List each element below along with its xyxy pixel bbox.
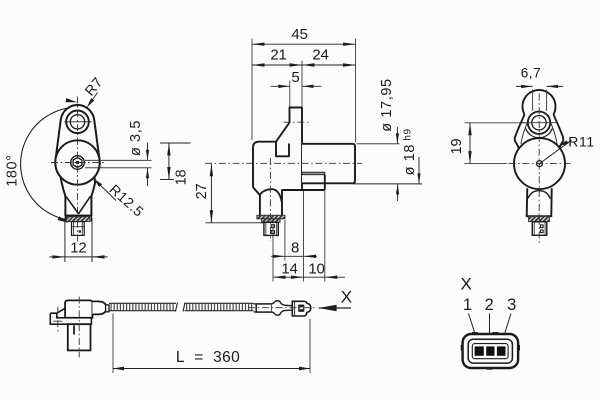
R12.5 leader — [93, 178, 147, 220]
cable sensor vertical centerline — [78, 297, 80, 358]
svg-text:18: 18 — [173, 170, 189, 186]
corrugated cable run 1 — [109, 303, 176, 310]
rear view vertical centerline — [538, 94, 540, 244]
rear view body outline — [515, 90, 563, 149]
connector pin cavity frame — [472, 344, 508, 359]
connector outer shell — [463, 334, 518, 368]
svg-text:27: 27 — [194, 184, 210, 200]
cable sensor grommet — [106, 305, 109, 312]
svg-text:ø 18: ø 18 — [402, 144, 418, 175]
rear view center hole dot — [537, 161, 543, 167]
svg-text:L = 360: L = 360 — [176, 349, 240, 366]
connector inner wall — [468, 339, 512, 363]
front view top hole crosshair — [64, 121, 91, 123]
dimension 12 (front) — [50, 218, 108, 262]
svg-text:14: 14 — [281, 260, 297, 277]
side view head body — [253, 108, 302, 203]
cable sensor barrel — [68, 324, 91, 350]
corrugated cable run 2 — [185, 303, 254, 310]
pin 1 — [475, 346, 484, 355]
rear view top hole horizontal crosshair — [521, 122, 557, 124]
front view V notch — [66, 196, 79, 214]
front view 180deg swing arc — [21, 98, 78, 223]
svg-text:6,7: 6,7 — [521, 65, 542, 80]
svg-text:ø 17,95: ø 17,95 — [379, 78, 395, 131]
front view body outline — [55, 105, 99, 216]
dimension dia 3,5 — [85, 120, 152, 186]
cable end connector body — [292, 301, 311, 316]
dimension dia 18 h9 — [353, 128, 422, 201]
svg-text:12: 12 — [70, 239, 86, 256]
dimension 19 — [449, 123, 528, 164]
cable connector latch detail — [299, 305, 304, 311]
dimension 5 — [271, 69, 322, 106]
rear view 2-pin connector — [532, 222, 547, 236]
svg-text:5: 5 — [291, 69, 300, 86]
dimension 45 — [252, 26, 356, 142]
cable sensor bracket plate — [50, 308, 91, 324]
svg-text:R11: R11 — [568, 134, 594, 150]
pin leader lines — [469, 314, 512, 346]
side view 2-pin connector — [264, 222, 278, 235]
svg-text:h9: h9 — [403, 128, 414, 140]
front view big face circle R12.5 — [55, 140, 99, 184]
dimension dia 17,95 — [357, 78, 400, 143]
rear view big circle — [514, 138, 565, 189]
svg-text:8: 8 — [291, 239, 300, 256]
dimension 8 — [271, 220, 317, 261]
cable sensor pole stub — [73, 326, 75, 335]
pin 3 — [497, 346, 506, 355]
svg-text:180°: 180° — [4, 154, 20, 186]
cable break marks — [176, 303, 178, 312]
dimension 21 and 24 — [252, 46, 356, 106]
cable centerline — [248, 307, 316, 309]
rear view neck — [527, 188, 552, 216]
cable sensor hole axis tick — [53, 320, 62, 322]
svg-text:19: 19 — [449, 139, 465, 155]
cable sensor body — [65, 300, 92, 317]
front view center hex and hole — [71, 156, 85, 170]
dimension 27 — [194, 164, 263, 223]
svg-text:21: 21 — [270, 46, 286, 63]
side view main horizontal centerline — [205, 162, 362, 164]
rear view neck arch — [528, 191, 551, 199]
svg-text:X: X — [341, 287, 353, 306]
svg-text:45: 45 — [291, 26, 307, 43]
dimensions 14 and 10 — [273, 191, 345, 282]
side view knurled bands — [257, 215, 285, 219]
rear view knurled band — [529, 216, 550, 221]
side view bracket hole centerline — [284, 121, 309, 123]
pin number labels 1 2 3 — [463, 296, 517, 314]
R11 leader — [540, 134, 595, 164]
front view big circle horizontal centerline — [51, 162, 105, 164]
rear view boss arc under hole — [526, 129, 553, 138]
svg-text:1: 1 — [463, 296, 473, 314]
front view top mounting hole rings — [66, 111, 89, 134]
svg-text:24: 24 — [312, 46, 328, 63]
front view vertical centerline — [77, 97, 79, 242]
rear view top hole rings — [528, 112, 550, 134]
dimension 6,7 — [516, 65, 563, 111]
front view knurled band — [65, 215, 92, 217]
rear view big circle horizontal centerline — [509, 163, 573, 165]
side view sensor dome tip — [260, 195, 282, 215]
pin 2 — [486, 346, 494, 355]
dimension L=360 — [113, 314, 310, 374]
svg-text:X: X — [461, 274, 473, 293]
front view 2-pin connector tip — [72, 222, 85, 236]
cable sensor connector dome — [92, 301, 106, 314]
R7 leader — [81, 74, 106, 108]
side view barrel cylinder — [302, 144, 355, 184]
connector shell nubs — [462, 333, 519, 368]
cable strain relief trumpet — [272, 301, 293, 315]
view X arrow — [319, 287, 353, 311]
svg-text:ø 3,5: ø 3,5 — [128, 120, 144, 156]
side view tip vertical centerline — [269, 158, 271, 241]
cable sensor hole axis — [57, 307, 59, 334]
svg-text:3: 3 — [507, 296, 517, 314]
side view pole piece blade under barrel — [282, 172, 325, 190]
rear view inner contour lines — [521, 123, 557, 144]
dimension 18 (front) — [160, 143, 191, 185]
svg-text:2: 2 — [485, 296, 495, 314]
svg-text:10: 10 — [308, 260, 324, 277]
cable end sleeve — [256, 304, 272, 312]
